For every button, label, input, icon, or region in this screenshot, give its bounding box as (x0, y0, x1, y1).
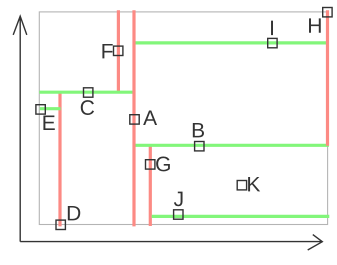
red vertical line H (326, 10, 329, 146)
label G (156, 157, 170, 172)
green horizontal line E (40, 107, 61, 110)
label D (68, 206, 80, 220)
label F (102, 44, 112, 58)
square F (114, 46, 123, 55)
square B (195, 142, 204, 151)
red vertical line D (58, 91, 61, 226)
square D (56, 220, 65, 229)
label K (248, 177, 260, 191)
label C (81, 100, 94, 115)
label B (193, 123, 204, 137)
square H (323, 8, 332, 17)
square K (237, 181, 246, 190)
label E (43, 116, 54, 130)
x-axis (20, 235, 322, 250)
square E (36, 105, 45, 114)
green horizontal line J (152, 215, 330, 218)
label A (143, 111, 157, 125)
label H (309, 18, 321, 32)
y-axis (13, 16, 27, 241)
square J (174, 210, 183, 219)
square I (268, 38, 277, 47)
green horizontal line I (133, 41, 327, 44)
label J (174, 192, 183, 207)
square A (130, 115, 139, 124)
green horizontal line B (134, 144, 329, 147)
label I (271, 21, 273, 35)
red vertical line G (149, 145, 152, 226)
red vertical line A (132, 10, 135, 226)
red vertical line F (117, 10, 120, 93)
bounding box rectangle (39, 12, 327, 225)
square G (146, 160, 155, 169)
square C (84, 88, 93, 97)
green horizontal line C (39, 91, 135, 94)
